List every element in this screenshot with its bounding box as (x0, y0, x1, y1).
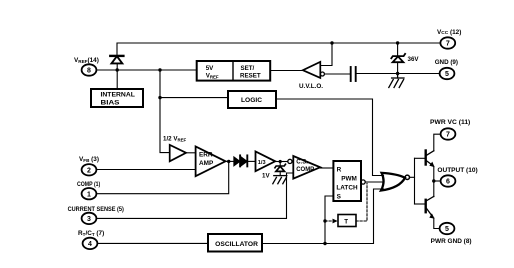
svg-text:1V: 1V (262, 172, 270, 179)
wire: output node to pin 6 (434, 180, 441, 182)
op-amp half vref buffer (170, 145, 196, 161)
svg-text:T: T (344, 219, 348, 226)
wire: cs comp to latch R (320, 167, 333, 169)
transistor Q2 (bottom NPN) (426, 181, 440, 229)
svg-text:VCC (12): VCC (12) (437, 29, 461, 36)
svg-text:VREF(14): VREF(14) (74, 57, 99, 64)
svg-text:RESET: RESET (240, 72, 261, 79)
svg-text:BIAS: BIAS (101, 100, 121, 107)
flip-flop T (338, 215, 356, 227)
svg-text:PWR VC (11): PWR VC (11) (430, 119, 470, 126)
svg-text:1/3: 1/3 (258, 160, 266, 166)
wire: oscillator output / clock (262, 189, 384, 244)
capacitor C1 (351, 67, 356, 81)
wire: to logic box (160, 97, 228, 99)
pin 6 OUTPUT (441, 175, 456, 186)
pin 5 PWR GND (440, 223, 455, 234)
diode D3 (241, 155, 255, 166)
svg-text:VFB (3): VFB (3) (79, 156, 99, 163)
svg-text:RT/CT (7): RT/CT (7) (78, 230, 104, 237)
svg-text:AMP: AMP (199, 160, 214, 167)
wire: logic output to nor gate (276, 99, 384, 176)
pin 5 GND (top) (440, 68, 455, 79)
svg-text:LATCH: LATCH (336, 184, 358, 191)
wire: rtct to oscillator (97, 242, 208, 244)
wire: err amp output (226, 160, 234, 162)
svg-text:LOGIC: LOGIC (241, 97, 262, 104)
junction dot J (S line / osc line) (323, 242, 326, 245)
wire: internal bias stem (116, 70, 118, 89)
svg-text:CURRENT SENSE (5): CURRENT SENSE (5) (68, 206, 124, 213)
svg-text:S: S (337, 193, 342, 200)
wire: bottom base (415, 203, 425, 205)
wire: base bus vertical (414, 158, 416, 204)
ground (under 1V zener) (273, 176, 287, 184)
Vcc top rail wire (117, 43, 440, 55)
svg-text:1: 1 (87, 191, 91, 198)
label SET/RESET (240, 65, 261, 79)
pin 3 CURRENT SENSE (82, 213, 97, 224)
svg-text:8: 8 (87, 68, 91, 75)
pin 8 VREF (82, 64, 97, 75)
junction dot K (output node) (432, 179, 435, 182)
op-amp ERR AMP (196, 147, 226, 177)
logic box (228, 91, 276, 108)
junction dot D (uvlo tap on vcc rail) (330, 41, 333, 44)
svg-text:5: 5 (445, 226, 449, 233)
zener diode Z1 36V (391, 43, 405, 74)
wire: comp to err amp output (96, 161, 228, 193)
pin 1 COMP (82, 188, 97, 199)
svg-text:GND (9): GND (9) (435, 59, 458, 66)
diode D2 (234, 155, 240, 166)
svg-text:5: 5 (445, 71, 449, 78)
wire: nor output to bases (410, 176, 415, 178)
internal bias box (91, 89, 143, 107)
diode D1 (VREF to VCC) (110, 56, 123, 70)
zener diode Z2 1V clamp (275, 162, 286, 176)
junction dot F (zener bottom) (396, 72, 399, 75)
svg-text:36V: 36V (408, 56, 420, 63)
svg-text:COMP (1): COMP (1) (77, 181, 100, 188)
svg-text:PWR GND (8): PWR GND (8) (431, 238, 472, 245)
junction dot E (zener top) (396, 41, 399, 44)
svg-text:1/2 VREF: 1/2 VREF (163, 136, 187, 143)
junction dot B (vref feed) (158, 68, 161, 71)
svg-text:7: 7 (446, 41, 450, 48)
svg-text:ERR: ERR (199, 151, 213, 158)
svg-text:6: 6 (446, 179, 450, 186)
svg-text:OSCILLATOR: OSCILLATOR (215, 241, 258, 248)
wire: dashed clock to T with arrow (325, 219, 338, 224)
pin 7 PWR VC (441, 128, 456, 139)
ground (under 36V zener) (389, 74, 404, 88)
svg-text:VREF: VREF (206, 72, 219, 79)
svg-text:7: 7 (446, 132, 450, 139)
svg-text:INTERNAL: INTERNAL (101, 92, 135, 99)
svg-text:R: R (337, 166, 342, 173)
svg-text:5V: 5V (206, 65, 214, 72)
svg-text:SET/: SET/ (241, 65, 255, 72)
svg-text:2: 2 (87, 167, 91, 174)
wire: top base (415, 157, 425, 159)
wire: current sense to cs comp (96, 173, 293, 218)
svg-text:COMP: COMP (296, 167, 314, 173)
junction dot H (1V clamp tap) (279, 160, 282, 163)
5V VREF / SET RESET box (197, 61, 271, 81)
svg-text:PWM: PWM (341, 175, 357, 182)
logic gate NOR U3 (381, 173, 409, 191)
op-amp U.V.L.O. (left pointing inverter) (303, 43, 350, 78)
wire: dashed T output to nor input (356, 183, 367, 221)
PWM latch U2 (333, 161, 365, 201)
junction dot A (diode/pin8/bias) (116, 68, 119, 71)
wire: set-reset box to UVLO output (270, 70, 303, 72)
wire: VREF pin line (96, 69, 196, 71)
svg-text:OUTPUT (10): OUTPUT (10) (437, 167, 477, 174)
label INTERNAL BIAS (101, 92, 135, 107)
oscillator box (208, 234, 262, 252)
pin 4 RT/CT (83, 238, 98, 249)
junction dot I (clock/T tap) (323, 219, 326, 222)
op-amp C.S. COMP (288, 156, 320, 179)
op-amp 1/3 divider (256, 152, 288, 172)
wire: vertical bus from vref node down to half-vref buffer (160, 70, 170, 153)
pin 7 VCC (top) (440, 37, 455, 48)
wire: vfb to err amp (96, 169, 195, 171)
svg-text:U.V.L.O.: U.V.L.O. (299, 83, 323, 90)
label 5V VREF (206, 65, 219, 79)
wire: latch output to nor (365, 181, 384, 183)
svg-text:C.S.: C.S. (296, 159, 308, 165)
svg-text:4: 4 (88, 241, 92, 248)
pin 2 VFB (82, 164, 97, 175)
junction dot G (err amp out / comp) (227, 160, 230, 163)
transistor Q1 (top NPN) (426, 134, 441, 181)
svg-text:3: 3 (87, 216, 91, 223)
wire: latch S input (325, 196, 333, 244)
wire: gnd rail (357, 73, 440, 75)
junction dot C (logic feed) (158, 96, 161, 99)
